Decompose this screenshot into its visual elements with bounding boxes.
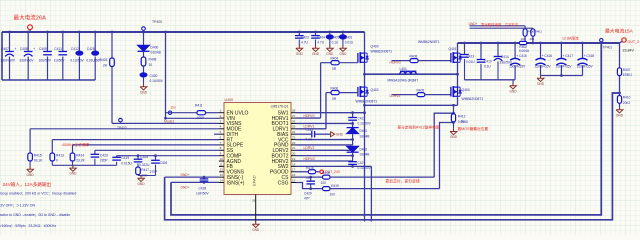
svg-text:C413: C413 — [467, 55, 475, 59]
svg-text:WMB62N08T1: WMB62N08T1 — [418, 40, 440, 44]
svg-text:11: 11 — [220, 162, 223, 166]
pin 8 SS — [219, 149, 224, 151]
ground below R415 — [29, 167, 31, 170]
ground output caps left — [512, 80, 514, 83]
svg-text:SS34B: SS34B — [151, 51, 162, 55]
svg-text:0.1U: 0.1U — [484, 65, 491, 69]
svg-text:0R: 0R — [332, 97, 337, 101]
capacitor C427 — [348, 161, 357, 163]
capacitor C409 — [46, 31, 49, 34]
svg-text:C425: C425 — [87, 47, 95, 51]
resistor R400 kelvin — [524, 36, 526, 43]
svg-text:C407: C407 — [1, 47, 9, 51]
svg-text:C410: C410 — [484, 59, 492, 63]
svg-text:0u: 0u — [461, 120, 465, 124]
svg-text:400KHz工作频率: 400KHz工作频率 — [62, 142, 90, 147]
svg-text:C424: C424 — [140, 155, 148, 159]
pin 1 EN UVLO — [219, 112, 224, 114]
svg-text:10: 10 — [149, 63, 153, 67]
svg-text:GND: GND — [296, 52, 304, 56]
svg-text:GND: GND — [140, 90, 148, 94]
svg-text:17: 17 — [292, 168, 296, 172]
wire VIN feed vertical — [164, 31, 167, 34]
svg-text:R401: R401 — [535, 29, 543, 33]
svg-text:GND: GND — [137, 182, 145, 186]
svg-text:GND: GND — [69, 172, 77, 176]
capacitor C407 — [8, 31, 11, 34]
net label LDRV2 / resistor R409 — [392, 94, 418, 96]
svg-text:R416: R416 — [306, 166, 314, 170]
svg-text:TP400: TP400 — [152, 20, 162, 24]
wire SW2 row — [297, 165, 372, 167]
svg-text:C420: C420 — [150, 74, 158, 78]
svg-text:47P: 47P — [304, 197, 310, 201]
svg-text:100: 100 — [321, 181, 327, 185]
wire output cap return — [465, 79, 516, 81]
wire VOUT rail — [458, 42, 620, 44]
wire VIN row — [166, 117, 220, 119]
svg-text:GND+: GND+ — [469, 22, 478, 26]
svg-text:15: 15 — [292, 178, 296, 182]
svg-text:26: 26 — [292, 119, 296, 123]
pin 10 AGND — [219, 160, 224, 162]
pin 15 CSG — [291, 182, 297, 184]
port IN max current 26A — [28, 25, 33, 30]
resistor R416 PGOOD — [297, 171, 309, 173]
svg-text:EPAD: EPAD — [252, 175, 257, 186]
net label GND+ kelvin wires — [470, 25, 526, 27]
svg-text:MWSA1004S-3R3MT: MWSA1004S-3R3MT — [388, 78, 419, 82]
svg-text:GND+: GND+ — [181, 186, 190, 190]
svg-text:33UF/50V: 33UF/50V — [1, 59, 16, 63]
svg-text:0.1U: 0.1U — [332, 40, 339, 44]
svg-text:+: + — [494, 55, 496, 59]
capacitor C414 — [497, 43, 499, 57]
capacitor C405 — [328, 31, 331, 34]
svg-text:0: 0 — [56, 159, 58, 163]
ground big caps — [540, 76, 542, 79]
wire CS vertical to R412 — [434, 113, 453, 177]
transistor Q402 — [364, 74, 366, 87]
pin 20 BOOT2 — [291, 155, 297, 157]
resistor R406 — [326, 92, 331, 94]
svg-text:R408: R408 — [149, 58, 157, 62]
capacitor C419 soft-start — [116, 156, 118, 158]
net label HDRV1 / wire — [297, 117, 321, 119]
svg-text:23.2K: 23.2K — [76, 159, 85, 163]
svg-text:GND: GND — [339, 52, 347, 56]
capacitor C425 — [94, 31, 97, 34]
wire big cap return — [541, 75, 583, 77]
pin 23 VCC — [291, 139, 297, 141]
svg-text:C428: C428 — [199, 186, 207, 190]
svg-text:R413: R413 — [56, 153, 64, 157]
svg-text:100: 100 — [330, 193, 336, 197]
svg-text:0.1U/50V: 0.1U/50V — [150, 79, 164, 83]
pin 22 PGND — [291, 144, 297, 146]
svg-text:20: 20 — [292, 152, 296, 156]
svg-text:R406: R406 — [331, 87, 339, 91]
svg-text:C414: C414 — [501, 55, 509, 59]
svg-text:hiccup enabled；200 kΩ or VCC：h: hiccup enabled；200 kΩ or VCC：hiccup disa… — [0, 192, 76, 196]
svg-text:GND: GND — [27, 173, 35, 177]
svg-text:C401: C401 — [345, 35, 353, 39]
ground left network — [72, 165, 74, 168]
capacitor C426 comp — [155, 156, 157, 161]
svg-text:HDRV2: HDRV2 — [390, 61, 402, 65]
pin 16 CS — [291, 176, 297, 178]
svg-text:C422: C422 — [306, 128, 314, 132]
capacitor C413 — [464, 43, 466, 55]
svg-text:220P: 220P — [100, 159, 109, 163]
svg-text:R407: R407 — [623, 68, 631, 72]
wire left edge — [1, 32, 3, 80]
svg-text:10: 10 — [220, 157, 224, 161]
svg-text:150UF/35V: 150UF/35V — [535, 65, 552, 69]
resistor R412 shunt — [453, 105, 455, 113]
svg-text:C405: C405 — [332, 35, 340, 39]
svg-text:U400: U400 — [225, 98, 234, 102]
svg-text:+: + — [33, 47, 35, 51]
svg-text:R414: R414 — [76, 153, 84, 157]
wire remote sense inner — [171, 43, 601, 215]
svg-text:0R: 0R — [332, 67, 337, 71]
resistor R413 — [51, 140, 53, 153]
capacitor C404 — [314, 31, 317, 34]
capacitor C418 — [581, 42, 584, 45]
svg-text:24: 24 — [292, 130, 296, 134]
svg-text:150UF/35V: 150UF/35V — [509, 65, 526, 69]
svg-text:29: 29 — [252, 199, 256, 203]
wire bootstrap chain — [352, 113, 354, 118]
capacitor C423 — [94, 150, 96, 154]
pin 12 VOSNS — [219, 171, 224, 173]
svg-text:LM5176-Q1: LM5176-Q1 — [271, 105, 289, 109]
svg-text:100: 100 — [529, 37, 534, 41]
svg-text:GND: GND — [326, 52, 334, 56]
wire BOOT1 row — [297, 122, 353, 124]
node SW2 — [457, 62, 459, 74]
resistor R403 — [111, 31, 114, 34]
ground EPAD — [255, 222, 257, 225]
wire BOOT2 row — [297, 155, 353, 157]
svg-text:12.8A限流: 12.8A限流 — [562, 36, 579, 41]
inductor L401 — [365, 73, 458, 75]
capacitor C428 — [203, 176, 206, 179]
capacitor C408 — [27, 31, 30, 34]
capacitor C420 — [143, 66, 145, 74]
resistor R407 — [619, 43, 621, 68]
svg-text:R412: R412 — [458, 115, 466, 119]
svg-text:22: 22 — [292, 141, 296, 145]
svg-text:18: 18 — [292, 162, 296, 166]
net label LDRV2 / wire — [297, 149, 353, 151]
svg-text:10U/50V: 10U/50V — [39, 59, 52, 63]
pin 24 BIAS — [291, 133, 297, 135]
wire FB tap — [612, 92, 619, 94]
svg-text:HDRV1: HDRV1 — [304, 114, 316, 118]
svg-text:C426: C426 — [160, 161, 168, 165]
op-amp U400 LM5176-Q1 body — [224, 103, 291, 195]
pin 6 RT — [219, 139, 224, 141]
wire left network return — [52, 164, 116, 166]
svg-text:93.1K: 93.1K — [34, 159, 43, 163]
svg-text:33UF/50V: 33UF/50V — [19, 59, 34, 63]
svg-text:靠MOS管最近位置: 靠MOS管最近位置 — [458, 126, 489, 131]
pin 5 DITH — [219, 133, 224, 135]
svg-text:C408: C408 — [20, 47, 28, 51]
svg-text:1UF/50V: 1UF/50V — [196, 191, 209, 195]
svg-text:+ C417: + C417 — [563, 54, 574, 58]
wire SW1 row — [297, 112, 365, 114]
svg-text:WMB62N08T1: WMB62N08T1 — [462, 97, 484, 101]
svg-text:GND: GND — [336, 133, 344, 137]
svg-text:270P: 270P — [150, 170, 157, 174]
svg-text:Q403: Q403 — [462, 88, 470, 92]
svg-text:25: 25 — [292, 125, 296, 129]
transistor Q401 — [457, 43, 459, 53]
ground C405 — [329, 46, 331, 49]
svg-text:靠近芯片，差分走线: 靠近芯片，差分走线 — [386, 179, 420, 184]
svg-text:+: + — [15, 47, 17, 51]
svg-text:GND: GND — [312, 52, 320, 56]
node EN junction — [168, 111, 171, 114]
resistor R408a — [143, 51, 145, 57]
svg-text:WMB62N08T1: WMB62N08T1 — [356, 99, 378, 103]
resistor R410 — [617, 96, 621, 104]
svg-text:WMB62N08T1: WMB62N08T1 — [371, 50, 393, 54]
capacitor C424 comp — [137, 156, 139, 160]
pin 18 SW2 — [291, 165, 297, 167]
svg-text:Q400: Q400 — [371, 45, 379, 49]
svg-text:0.01U: 0.01U — [345, 40, 354, 44]
svg-text:GND: GND — [509, 89, 517, 93]
svg-text:C411: C411 — [54, 47, 62, 51]
resistor R415 — [29, 129, 31, 153]
pin 11 FB — [219, 165, 224, 167]
svg-text:23.84V: 23.84V — [623, 49, 635, 53]
resistor R402 shunt — [519, 41, 527, 44]
net label ISNS- / wire ISNS- row — [165, 176, 219, 178]
svg-text:16: 16 — [292, 173, 296, 177]
svg-text:OUT_2: OUT_2 — [628, 40, 640, 44]
ground C404 — [315, 46, 317, 49]
capacitor C429 — [310, 177, 312, 181]
ground C401 — [342, 46, 344, 49]
diode D400 SS34B — [142, 31, 145, 34]
transistor Q400 — [364, 32, 366, 53]
capacitor C415 — [514, 42, 517, 45]
svg-text:＜1.22V OFF；＞1.22V ON: ＜1.22V OFF；＞1.22V ON — [0, 203, 35, 207]
svg-text:R415: R415 — [34, 153, 42, 157]
svg-text:21: 21 — [292, 146, 296, 150]
svg-text:Q402: Q402 — [371, 88, 379, 92]
testpoint TP402 / wire VISNS row — [112, 122, 219, 124]
svg-text:LDRV2: LDRV2 — [390, 94, 401, 98]
pin 28 SW1 — [291, 112, 297, 114]
capacitor C412 — [78, 31, 81, 34]
net label Mode1 / wire MODE row — [30, 128, 219, 130]
ground comp network — [140, 176, 142, 179]
capacitor C421 — [348, 117, 357, 119]
svg-text:+ C416: + C416 — [542, 54, 553, 58]
svg-text:R408: R408 — [410, 54, 418, 58]
svg-text:1U/50V: 1U/50V — [54, 59, 66, 63]
svg-text:+ C418: + C418 — [584, 54, 595, 58]
svg-text:GND: GND — [450, 135, 458, 139]
svg-text:CSG: CSG — [278, 180, 289, 186]
capacitor C403 — [298, 31, 301, 34]
svg-text:R410: R410 — [623, 96, 631, 100]
svg-text:4.7U: 4.7U — [301, 40, 308, 44]
node SW1 — [364, 62, 366, 74]
wire Q403 source — [457, 96, 459, 105]
capacitor C410 — [480, 43, 482, 60]
ground C403 — [298, 46, 300, 49]
wire PGND row — [297, 144, 353, 146]
svg-text:R409: R409 — [417, 89, 425, 93]
svg-text:（>160ns）/1Rfph：23.2KΩ：400KHz: （>160ns）/1Rfph：23.2KΩ：400KHz — [0, 223, 56, 228]
svg-text:27: 27 — [292, 114, 296, 118]
svg-text:靠近取样电阻，文字右边: 靠近取样电阻，文字右边 — [481, 22, 519, 27]
wire input return bus — [2, 79, 95, 81]
svg-text:R418: R418 — [322, 171, 330, 175]
svg-text:150UF/35V: 150UF/35V — [555, 65, 572, 69]
pin 25 LDRV1 — [291, 128, 297, 130]
wire CSG vertical to R412 — [440, 123, 454, 189]
net label ISNS+ / wire ISNS+ row — [171, 181, 219, 183]
pin 17 PGOOD — [291, 171, 297, 173]
svg-text:GND: GND — [616, 113, 624, 117]
svg-text:GND: GND — [252, 228, 260, 232]
svg-text:C412: C412 — [71, 47, 79, 51]
svg-text:C409: C409 — [39, 47, 47, 51]
svg-text:R404: R404 — [331, 57, 339, 61]
svg-text:0.1U/50V: 0.1U/50V — [70, 59, 84, 63]
svg-text:TP401: TP401 — [603, 46, 613, 50]
ground below C420 — [143, 78, 145, 85]
resistor R401 kelvin — [532, 36, 534, 43]
resistor R411 — [166, 112, 198, 114]
wire HDRV1 vertical — [320, 63, 322, 118]
svg-text:GND+: GND+ — [181, 173, 190, 177]
wire DITH stub — [214, 133, 219, 135]
ground BIAS — [331, 132, 335, 137]
svg-text:差分走线到R412取样电阻: 差分走线到R412取样电阻 — [398, 125, 440, 130]
svg-text:ISNS(+): ISNS(+) — [227, 180, 245, 186]
svg-text:678KJ: 678KJ — [623, 73, 632, 77]
diode D401 SS34B — [347, 128, 359, 134]
svg-text:HDRV2: HDRV2 — [304, 157, 316, 161]
diode D402 SS34B — [347, 146, 359, 152]
svg-text:0.004U: 0.004U — [519, 49, 530, 53]
svg-text:R417: R417 — [141, 168, 149, 172]
svg-text:0.022U: 0.022U — [139, 163, 150, 167]
pin 13 ISNS(-) — [219, 176, 224, 178]
svg-text:最大电流26A: 最大电流26A — [14, 14, 47, 22]
net label HDRV2 / wire — [297, 160, 353, 162]
pin 7 SLOPE — [219, 144, 224, 146]
svg-text:C419: C419 — [121, 156, 129, 160]
svg-text:D402: D402 — [360, 147, 368, 151]
pin 4 MODE — [219, 128, 224, 130]
resistor R417 comp — [137, 163, 139, 167]
svg-text:C429: C429 — [304, 191, 312, 195]
pin 21 LDRV2 — [291, 149, 297, 151]
wire comp return — [138, 175, 156, 177]
svg-text:10u: 10u — [170, 105, 176, 109]
pin 19 HDRV2 — [291, 160, 297, 162]
svg-text:20KJ: 20KJ — [623, 101, 631, 105]
testpoint TP401 — [600, 39, 603, 42]
svg-text:R411: R411 — [195, 104, 203, 108]
port OUT_24V — [320, 170, 324, 174]
wire VCC row — [297, 139, 353, 141]
svg-text:150UF/35V: 150UF/35V — [577, 65, 594, 69]
wire Q402 source down — [364, 96, 366, 221]
ground R412 — [453, 129, 455, 132]
svg-text:最大电流15A: 最大电流15A — [605, 27, 634, 34]
pin 3 VISNS — [219, 122, 224, 124]
svg-text:，24V输入，12A多路输出: ，24V输入，12A多路输出 — [0, 181, 52, 188]
svg-text:D401: D401 — [360, 129, 368, 133]
ground R410 — [619, 107, 621, 110]
svg-text:C403: C403 — [301, 35, 309, 39]
wire input VIN bus — [2, 31, 365, 33]
svg-text:R403: R403 — [100, 58, 108, 62]
svg-text:L401: L401 — [400, 67, 408, 71]
svg-text:0.015U: 0.015U — [121, 161, 132, 165]
resistor R404 — [321, 62, 331, 64]
transistor Q403 — [457, 74, 459, 87]
svg-text:28: 28 — [292, 109, 296, 113]
svg-text:12: 12 — [220, 168, 224, 172]
svg-text:R419: R419 — [331, 184, 339, 188]
capacitor C411 — [61, 31, 64, 34]
testpoint TP400 — [142, 27, 146, 31]
svg-text:13: 13 — [220, 173, 224, 177]
svg-text:GND: GND — [537, 82, 545, 86]
pin 14 ISNS(+) — [219, 182, 224, 184]
svg-text:D400: D400 — [151, 46, 159, 50]
pin 9 COMP — [219, 155, 224, 157]
wire source return — [365, 104, 458, 106]
wire RT row — [52, 139, 219, 141]
wire remote sense outer — [165, 93, 620, 220]
wire SS row — [95, 149, 219, 151]
svg-text:capacitor to GND→enable；0Ω to: capacitor to GND→enable；0Ω to GND→disabl… — [0, 213, 70, 217]
svg-text:C423: C423 — [100, 153, 108, 157]
svg-text:100: 100 — [521, 37, 526, 41]
svg-text:0.01U: 0.01U — [466, 60, 475, 64]
wire COMP row — [117, 155, 219, 157]
net label HDRV2 / resistor R408 — [392, 60, 411, 62]
svg-text:+ C415: + C415 — [516, 54, 527, 58]
pin 27 HDRV1 — [291, 117, 297, 119]
capacitor C422 BIAS — [297, 133, 312, 135]
net label LDRV1 / wire — [297, 128, 327, 130]
svg-text:19: 19 — [292, 157, 296, 161]
pin 26 BOOT1 — [291, 122, 297, 124]
wire CS row / resistor R418 — [297, 176, 323, 178]
svg-text:LDRV2: LDRV2 — [304, 146, 315, 150]
pin 2 VIN — [219, 117, 224, 119]
svg-text:Q401: Q401 — [449, 47, 457, 51]
svg-text:Mode1: Mode1 — [164, 120, 174, 124]
capacitor C401 — [342, 31, 345, 34]
resistor R414 — [72, 145, 74, 153]
svg-text:23: 23 — [292, 135, 296, 139]
